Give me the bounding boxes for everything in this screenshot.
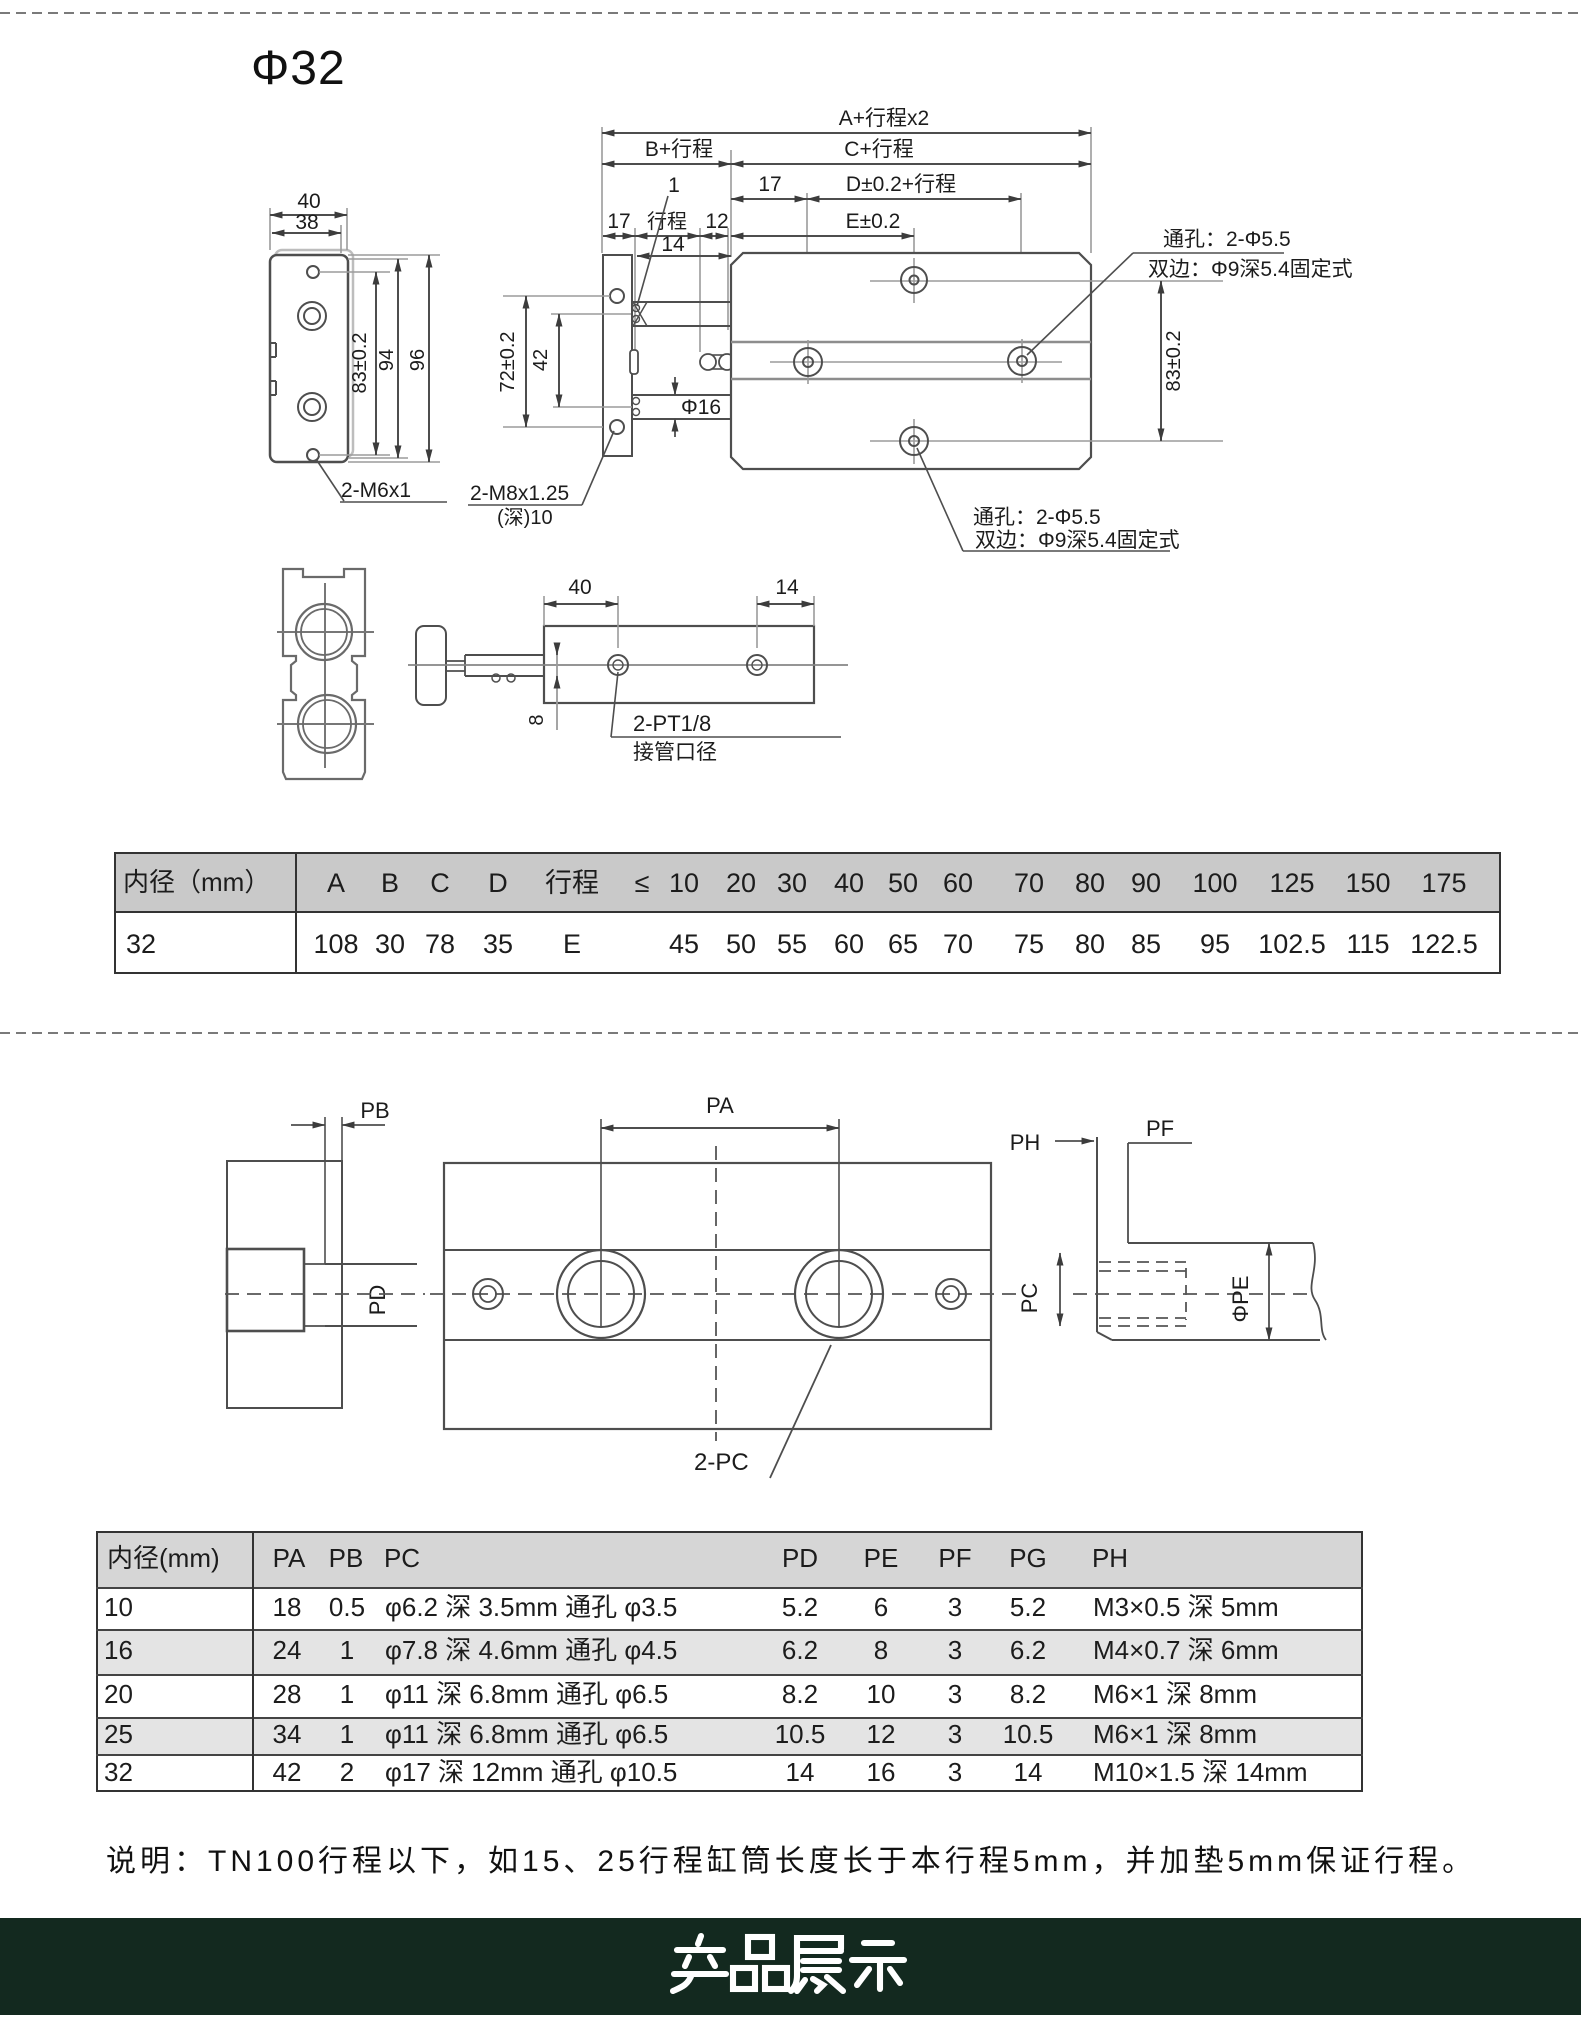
body groove lines: [731, 341, 1091, 343]
big hole 2: [795, 1250, 883, 1338]
ext lines A dim: [601, 127, 603, 253]
svg-text:2-PT1/8: 2-PT1/8: [633, 711, 711, 736]
svg-text:12: 12: [705, 210, 728, 233]
top hole E: [870, 280, 1223, 282]
mid-right hole: [1021, 339, 1023, 383]
banner glyph zhan: [797, 1938, 841, 1951]
top dashed separator: [0, 12, 1581, 14]
rod PD: [325, 1263, 417, 1265]
banner glyph pin: [748, 1937, 772, 1957]
bottom hole: [870, 440, 1223, 442]
dim 96 vertical: [348, 254, 440, 256]
centerline dashed right: [1073, 1293, 1308, 1295]
cross-section centerline vertical: [324, 583, 326, 768]
end view top hole 2-M6x1: [307, 266, 319, 278]
small hole right: [936, 1279, 966, 1309]
tube break line: [1311, 1243, 1326, 1340]
dim B+stroke: [730, 150, 732, 257]
dim 72±0.2: [503, 295, 610, 297]
svg-text:双边：Φ9深5.4固定式: 双边：Φ9深5.4固定式: [975, 529, 1180, 552]
svg-text:E±0.2: E±0.2: [846, 210, 901, 233]
dim 8 rod: [556, 645, 558, 730]
svg-text:通孔：2-Φ5.5: 通孔：2-Φ5.5: [1163, 228, 1291, 251]
dim 83±0.2 right: [1160, 281, 1162, 441]
left centerline dashed: [225, 1293, 425, 1295]
PB extension lines: [324, 1117, 326, 1264]
svg-text:PA: PA: [706, 1093, 734, 1118]
svg-text:2-PC: 2-PC: [694, 1449, 749, 1476]
svg-text:40: 40: [568, 576, 591, 599]
left end plate (side): [603, 255, 632, 456]
svg-text:17: 17: [607, 210, 630, 233]
big hole 1: [557, 1250, 645, 1338]
svg-text:ΦPE: ΦPE: [1228, 1276, 1253, 1323]
svg-text:94: 94: [376, 349, 398, 371]
svg-text:Φ16: Φ16: [681, 396, 721, 419]
end view shadow outline: [275, 250, 353, 457]
bottom banner: [0, 1918, 1581, 2015]
2-PC label: [770, 1345, 831, 1478]
svg-text:行程: 行程: [647, 210, 687, 233]
bottom piston rod: [632, 394, 731, 396]
boss neck: [304, 1263, 325, 1265]
svg-text:96: 96: [407, 349, 429, 371]
svg-text:42: 42: [530, 349, 552, 371]
end view lower counterbore hole: [298, 393, 326, 421]
port hole 1: [608, 655, 628, 675]
mid-left hole: [807, 340, 809, 384]
upper bore circle: [277, 631, 374, 633]
table 2 spec: [96, 1531, 1363, 1792]
end view plate outline: [270, 255, 348, 462]
dim phi16: [674, 377, 676, 395]
PA dim: [600, 1119, 602, 1327]
plate hole top: [610, 289, 624, 303]
left figure: end cap section: [227, 1161, 342, 1408]
svg-text:83±0.2: 83±0.2: [1163, 330, 1185, 391]
PC dim: [1059, 1253, 1061, 1326]
dim A+stroke x2: [602, 132, 1091, 134]
end view left edge notches: [270, 342, 276, 344]
svg-text:14: 14: [775, 576, 799, 599]
svg-text:(深)10: (深)10: [497, 506, 553, 529]
svg-text:C+行程: C+行程: [844, 138, 913, 161]
end view upper counterbore hole: [298, 302, 326, 330]
label 2-PT1/8 leader: [611, 672, 618, 737]
svg-text:83±0.2: 83±0.2: [349, 332, 371, 393]
svg-text:PF: PF: [1146, 1116, 1174, 1141]
svg-text:PD: PD: [365, 1285, 390, 1316]
dim C+stroke: [731, 163, 1091, 165]
plate slot: [630, 350, 638, 374]
T head: [416, 626, 446, 705]
tube outline: [1128, 1242, 1313, 1244]
svg-text:PH: PH: [1010, 1130, 1041, 1155]
title Phi32: [251, 41, 346, 96]
dim E±0.2 row: 17 / stroke / 12 / E: [634, 228, 636, 374]
port hole 2: [747, 655, 767, 675]
end view bottom hole 2-M6x1: [307, 449, 319, 461]
banner glyph shi: [864, 1940, 892, 1946]
centerline: [408, 664, 848, 666]
middle figure: body top view: [444, 1163, 991, 1429]
cross-section profile outline: [283, 569, 365, 779]
top guide rod: [632, 301, 731, 303]
svg-text:40: 40: [297, 190, 320, 213]
plate hole bottom: [610, 420, 624, 434]
dim 14 lower: [756, 596, 758, 648]
svg-text:17: 17: [758, 173, 781, 196]
note line: [106, 1836, 1476, 1880]
svg-text:PC: PC: [1017, 1283, 1042, 1314]
svg-text:通孔：2-Φ5.5: 通孔：2-Φ5.5: [973, 506, 1101, 529]
label 2-M6x1 leader: [316, 459, 344, 501]
mid dashed separator: [0, 1032, 1581, 1034]
PB arrows: [291, 1124, 325, 1126]
rod neck: [446, 660, 465, 662]
dim 38: [340, 225, 342, 253]
dim 42: [551, 313, 631, 315]
svg-text:双边：Φ9深5.4固定式: 双边：Φ9深5.4固定式: [1148, 258, 1353, 281]
dim 94 vertical: [348, 258, 408, 260]
small hole left: [473, 1279, 503, 1309]
table 1 spec: [114, 852, 1501, 974]
svg-text:8: 8: [526, 714, 548, 725]
svg-text:1: 1: [668, 174, 680, 197]
svg-text:2-M6x1: 2-M6x1: [341, 479, 411, 502]
svg-text:B+行程: B+行程: [645, 138, 713, 161]
floating joint: [700, 354, 716, 370]
svg-text:2-M8x1.25: 2-M8x1.25: [470, 482, 569, 505]
hidden thread dashed: [1099, 1261, 1186, 1263]
svg-text:14: 14: [661, 233, 685, 256]
PE dim: [1268, 1243, 1270, 1340]
dim 17 and D±0.2+stroke: [806, 193, 808, 350]
svg-text:72±0.2: 72±0.2: [497, 331, 519, 392]
svg-text:A+行程x2: A+行程x2: [839, 107, 929, 130]
svg-text:38: 38: [295, 211, 318, 234]
rod: [465, 654, 544, 656]
mid holes centerline: [770, 361, 1062, 363]
banner glyph chan: [698, 1936, 701, 1944]
body rect: [544, 626, 814, 703]
svg-text:PB: PB: [360, 1098, 389, 1123]
dim 14: [637, 255, 731, 257]
dim 83±0.2 vertical: [319, 271, 390, 273]
svg-text:接管口径: 接管口径: [633, 741, 717, 764]
label bottom through-hole: [917, 448, 963, 551]
lower bore circle: [277, 723, 374, 725]
dashed centerlines: [430, 1293, 1020, 1295]
dim 40 lower: [543, 596, 545, 626]
label top right through-hole: [1027, 253, 1133, 355]
plate edge: [1096, 1137, 1098, 1332]
piston boss: [227, 1249, 304, 1331]
cylinder body: [731, 253, 1091, 469]
label 2-M8x1.25 (depth)10: [582, 431, 614, 505]
dim 40: [269, 208, 271, 250]
svg-text:D±0.2+行程: D±0.2+行程: [846, 173, 956, 196]
